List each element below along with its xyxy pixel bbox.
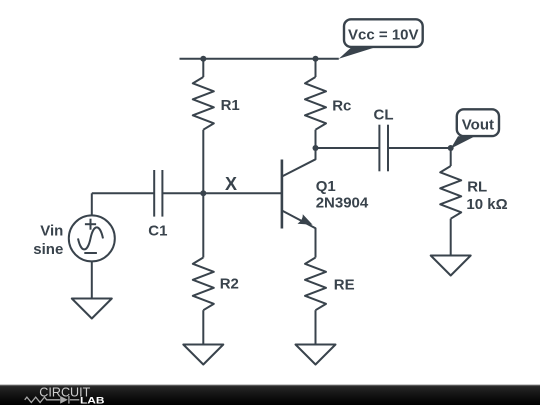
svg-text:R2: R2 — [220, 276, 239, 293]
svg-text:Vcc = 10V: Vcc = 10V — [348, 27, 418, 44]
svg-text:RE: RE — [334, 277, 355, 294]
svg-text:CL: CL — [374, 106, 394, 123]
svg-text:Vout: Vout — [462, 116, 494, 133]
svg-text:Q1: Q1 — [316, 178, 336, 195]
svg-text:LAB: LAB — [80, 395, 105, 405]
svg-text:Rc: Rc — [332, 98, 351, 115]
svg-text:10 kΩ: 10 kΩ — [466, 196, 507, 213]
svg-text:2N3904: 2N3904 — [316, 195, 369, 212]
svg-text:RL: RL — [467, 178, 487, 195]
svg-text:X: X — [225, 174, 237, 194]
svg-text:C1: C1 — [148, 223, 167, 240]
svg-text:R1: R1 — [221, 97, 240, 114]
svg-text:sine: sine — [33, 241, 63, 258]
svg-text:Vin: Vin — [40, 223, 63, 240]
